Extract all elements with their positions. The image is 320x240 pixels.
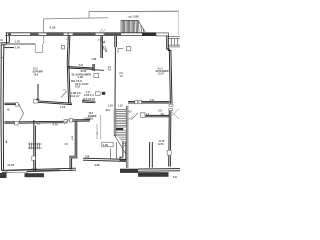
svg-text:1.98 s: 1.98 s: [84, 116, 92, 120]
svg-text:1.93: 1.93: [108, 105, 113, 108]
stair cut diagonal: [115, 135, 126, 154]
svg-text:10.9 m²: 10.9 m²: [70, 94, 80, 98]
small square x128: [127, 47, 131, 51]
radiator hatch bottom-left: [28, 143, 42, 149]
balcony stair hatch top (trapezoid): [121, 20, 146, 32]
door post corridor bottom-left: [15, 121, 18, 125]
bottom band right: [138, 169, 180, 172]
staircase: [114, 106, 128, 168]
svg-text:3.98: 3.98: [95, 164, 100, 167]
dark segment bottom band: [27, 170, 60, 171]
door box on wall x34.5: [32, 156, 36, 161]
dim line y43.5 + box top-left room: [6, 36, 44, 53]
svg-text:14.67: 14.67: [7, 163, 14, 167]
door post corridor bottom x65: [64, 120, 68, 123]
window x marks: [66, 29, 106, 40]
door leaf landing: [131, 113, 138, 120]
left outer wall: [1, 33, 14, 171]
svg-text:0.07: 0.07: [75, 84, 81, 88]
door X right wall: [172, 109, 179, 120]
balcony slab mid dark: [120, 169, 138, 173]
svg-text:1.98: 1.98: [92, 59, 97, 61]
wall mid-bottom horizontal y159: [83, 158, 127, 161]
svg-text:ca. 3.80: ca. 3.80: [129, 14, 140, 18]
balcony slab dark bottom-left: [25, 173, 45, 177]
door leaf up-right: [61, 91, 67, 97]
thin vertical x97: [96, 124, 98, 139]
stair dark landing bar: [116, 128, 124, 130]
svg-text:1.18: 1.18: [101, 42, 106, 44]
top wall band: [6, 33, 157, 36]
stair treads: [116, 112, 127, 146]
svg-text:11.78: 11.78: [159, 141, 165, 143]
svg-text:1.20: 1.20: [118, 104, 123, 107]
svg-text:1.98: 1.98: [85, 156, 90, 159]
L mark x120: [118, 49, 123, 53]
door notch right wall: [169, 104, 173, 106]
svg-text:1.18: 1.18: [60, 105, 66, 109]
dim box 1.98 bottom-center: [102, 142, 113, 147]
stairwell lower verticals: [110, 142, 116, 160]
hollow wall box top-right: [156, 33, 169, 36]
wall stub x38: [37, 84, 39, 101]
interior wall x34.5 bottom-left rooms: [34, 120, 36, 171]
thin vertical x101: [100, 115, 102, 139]
wall x68 central: [67, 36, 70, 104]
door rect WC: [94, 73, 99, 77]
svg-text:12.79: 12.79: [158, 144, 164, 146]
svg-text:1.98: 1.98: [103, 144, 108, 147]
tick near stair right: [128, 116, 132, 119]
door box right wall lower: [167, 150, 171, 155]
svg-text:15.07: 15.07: [158, 73, 164, 75]
window frame top-left: [39, 33, 105, 36]
corridor text cluster: [70, 69, 96, 120]
WC block walls: [93, 36, 104, 71]
door posts landing: [135, 100, 138, 104]
right outer wall: [167, 36, 172, 167]
top wall solid segments: [8, 33, 121, 35]
roof outline thin line: [44, 12, 109, 33]
wall bottom-right x151: [150, 142, 153, 168]
svg-text:7.9: 7.9: [173, 175, 178, 179]
svg-text:3.41: 3.41: [79, 64, 84, 67]
tick left wall: [1, 57, 4, 59]
tick corner x38: [36, 98, 40, 100]
window gap bottom band: [7, 171, 27, 173]
stair top: [116, 109, 127, 111]
balcony slab dark bottom-right: [138, 172, 169, 177]
dark wall bar top-right: [142, 33, 156, 36]
svg-text:B.5 10.97: B.5 10.97: [83, 97, 96, 101]
small square x60: [62, 46, 65, 49]
svg-text:1.76: 1.76: [15, 40, 21, 44]
balcony corner blob: [0, 173, 7, 178]
svg-text:90 x: 90 x: [106, 109, 111, 112]
double door leaves '>': [19, 104, 24, 122]
svg-text:1.6: 1.6: [86, 90, 90, 94]
svg-text:1.76: 1.76: [15, 46, 21, 50]
step wall bottom-center: [70, 122, 77, 170]
stair right wall: [125, 106, 127, 168]
landing walls right of stair: [128, 102, 170, 117]
wall x115.5 stair-west: [115, 36, 117, 110]
svg-text:4 x 2: 4 x 2: [158, 67, 164, 70]
wall y67 horizontal: [68, 67, 94, 70]
step wall bottom-right x124: [120, 142, 126, 161]
svg-text:5.18: 5.18: [50, 26, 56, 30]
bottom band left: [2, 168, 76, 172]
door post corridor x34: [33, 100, 38, 103]
svg-text:10.9: 10.9: [34, 73, 39, 76]
tick bottom band: [26, 172, 28, 174]
svg-text:16.5: 16.5: [89, 113, 94, 115]
corridor top wall: [4, 101, 95, 105]
corridor bottom wall: [4, 120, 90, 124]
door leaf bottom center: [64, 119, 69, 123]
svg-text:6 1 6: 6 1 6: [32, 168, 38, 171]
right balcony railing lines: [169, 37, 181, 47]
door post corridor bottom x70: [69, 119, 72, 122]
svg-text:3: 3: [5, 140, 7, 144]
svg-text:1.41: 1.41: [150, 99, 155, 102]
door posts x101 y92: [96, 92, 101, 96]
door post corridor top-left: [16, 103, 19, 107]
svg-text:4.76: 4.76: [53, 123, 59, 127]
stair left wall: [113, 110, 115, 136]
